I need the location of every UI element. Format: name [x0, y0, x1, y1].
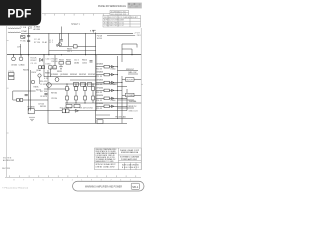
bottom title bar: [73, 181, 145, 191]
revision table: [103, 15, 141, 27]
svg-text:REV C 1976: REV C 1976: [2, 168, 10, 170]
wire: [122, 48, 132, 50]
output terminal stub: [117, 69, 138, 71]
transformer T1 primary winding: [8, 27, 21, 30]
output rail: [65, 102, 141, 104]
wire: [117, 86, 127, 88]
wire: [54, 55, 56, 66]
notes text block: [3, 158, 14, 162]
svg-text:SPKR OUT: SPKR OUT: [126, 69, 135, 71]
connector J1 pin 1: [28, 26, 31, 29]
wire: [58, 33, 60, 46]
svg-text:R10 22 1W: R10 22 1W: [79, 74, 86, 76]
wire: [49, 50, 96, 52]
transistor Q10: [31, 80, 35, 84]
ground: [56, 44, 58, 46]
svg-text:© PhaseLinear Historical: © PhaseLinear Historical: [2, 187, 29, 190]
wire: [107, 34, 135, 36]
rail vertical: [116, 56, 118, 119]
svg-text:PHASE 400 SERIES MANUAL: PHASE 400 SERIES MANUAL: [98, 4, 126, 8]
svg-text:POWER AMPLIFIER: POWER AMPLIFIER: [121, 158, 138, 161]
label row: [60, 107, 93, 109]
svg-text:B+: B+: [90, 31, 93, 33]
transistor Q3: [55, 78, 59, 82]
svg-text:D7 A1: D7 A1: [111, 83, 116, 86]
svg-text:C21 250: C21 250: [51, 98, 57, 100]
PDF badge: [0, 0, 41, 26]
transistor Q11: [38, 74, 41, 77]
capacitor C1: [27, 35, 30, 36]
wire: [12, 91, 14, 100]
svg-text:R33 2K: R33 2K: [66, 59, 72, 61]
svg-text:C11 .1: C11 .1: [67, 51, 72, 53]
bottom ruler numbers: [14, 179, 131, 181]
wire: [20, 44, 22, 55]
svg-text:Q9 MJ450: Q9 MJ450: [96, 103, 103, 105]
resistor R26: [97, 120, 103, 124]
svg-text:A PRODUCTION RELEASE: A PRODUCTION RELEASE: [104, 19, 125, 22]
svg-text:C REVISED PER ECO 47: C REVISED PER ECO 47: [104, 25, 124, 27]
wire: [96, 118, 133, 120]
svg-text:D4 1N4: D4 1N4: [74, 63, 79, 65]
transistor Q1: [58, 43, 61, 46]
svg-text:-75V: -75V: [136, 35, 142, 37]
wire: [48, 33, 50, 54]
label cluster: [23, 69, 49, 108]
speaker terminal box 2: [122, 93, 141, 97]
svg-text:SLO B: SLO B: [97, 38, 103, 40]
svg-text:Q3 2N3055: Q3 2N3055: [60, 74, 68, 76]
capacitor C10: [60, 40, 63, 41]
sheet left border: [7, 26, 9, 177]
resistor R23: [74, 104, 80, 107]
title block: [95, 148, 142, 170]
wire: [68, 33, 70, 46]
wire: [44, 76, 96, 78]
wire: [128, 73, 138, 75]
wire: [70, 79, 96, 81]
dense label row: [50, 74, 95, 76]
emitter resistor R18: [66, 84, 69, 103]
wire: [44, 88, 70, 90]
svg-text:FAN +24V: FAN +24V: [129, 71, 138, 74]
capacitor C2: [27, 40, 30, 41]
output ladder rail: [48, 83, 117, 85]
label J1: [34, 26, 41, 32]
supply rail vertical: [95, 33, 97, 124]
node junction cluster: [92, 30, 96, 32]
svg-text:T1 10A: T1 10A: [20, 26, 27, 29]
resistor R4: [42, 66, 45, 69]
supply rail vertical 2: [96, 55, 98, 111]
svg-text:THERMAL: THERMAL: [129, 100, 137, 103]
connector J1 pin 2: [30, 26, 32, 29]
resistor R25: [66, 109, 69, 113]
label R30: [67, 49, 73, 53]
wire: [117, 107, 134, 109]
wire: [47, 70, 49, 123]
emitter resistor R20: [84, 84, 87, 103]
wire: [49, 69, 51, 77]
svg-text:5: 5: [43, 179, 44, 181]
svg-text:Q11 A9: Q11 A9: [36, 69, 41, 72]
svg-text:Q7 MJ450: Q7 MJ450: [96, 87, 103, 89]
svg-text:2: 2: [72, 179, 73, 181]
svg-text:LINE AT 120VAC 60HZ: LINE AT 120VAC 60HZ: [96, 166, 115, 169]
svg-text:R7 150: R7 150: [34, 42, 40, 44]
wire: [121, 44, 123, 62]
svg-text:C13 22: C13 22: [82, 63, 87, 65]
connector P1: [9, 73, 15, 80]
label right: [129, 110, 139, 112]
speaker terminal box: [122, 78, 141, 82]
resistor R32: [59, 62, 64, 65]
junction node: [67, 84, 94, 104]
svg-text:P1 IN: P1 IN: [9, 71, 15, 73]
revision table rows text: [104, 16, 139, 27]
svg-text:EDMONDS WASH USA: EDMONDS WASH USA: [121, 151, 139, 154]
wire: [13, 99, 48, 101]
svg-text:C16 10: C16 10: [31, 72, 36, 74]
svg-text:SHEET 1: SHEET 1: [71, 23, 81, 26]
svg-text:OUT GND: OUT GND: [126, 95, 134, 97]
svg-text:PDF: PDF: [7, 7, 31, 21]
svg-text:C12 .1: C12 .1: [74, 59, 79, 61]
label under-rows left column: [96, 67, 116, 110]
capacitor C3 electrolytic: [12, 55, 16, 61]
label cluster top mid: [34, 39, 47, 44]
svg-text:3: 3: [62, 179, 63, 181]
ground: [59, 65, 63, 70]
wire: [28, 28, 30, 111]
label row: [45, 58, 58, 74]
rail vertical: [121, 76, 123, 123]
svg-text:8: 8: [14, 179, 15, 181]
diode D2: [40, 58, 43, 61]
wire: [48, 122, 127, 124]
svg-text:Q5 MJ802: Q5 MJ802: [96, 72, 103, 74]
lower bus wire: [35, 110, 127, 112]
rail vertical: [126, 89, 128, 111]
svg-text:R35 5K: R35 5K: [57, 71, 63, 73]
svg-text:4: 4: [52, 179, 53, 181]
label right column: [129, 71, 138, 108]
resistor R30: [73, 45, 77, 48]
svg-text:C8 10PF: C8 10PF: [40, 96, 48, 98]
svg-text:D8 A1: D8 A1: [111, 99, 116, 102]
wire: [21, 32, 133, 34]
resistor R33: [66, 62, 71, 65]
svg-text:SB-1: SB-1: [132, 185, 139, 189]
label mid-low cluster: [51, 93, 57, 100]
resistor R24: [62, 109, 65, 113]
capacitor C6: [25, 94, 28, 95]
resistor R15: [20, 99, 23, 102]
svg-text:B REVISED PER ECO 02: B REVISED PER ECO 02: [104, 22, 124, 24]
diode D3: [75, 109, 78, 112]
svg-text:R18 1K: R18 1K: [34, 87, 40, 89]
emitter resistor R19: [75, 84, 78, 103]
svg-text:C3 8000: C3 8000: [11, 64, 17, 66]
svg-text:ALL RES 1/2W: ALL RES 1/2W: [3, 159, 14, 162]
wire: [43, 55, 45, 77]
svg-text:TP1 0VDC ADJ: TP1 0VDC ADJ: [115, 116, 126, 119]
label K1: [50, 40, 54, 44]
main bus wire: [7, 54, 141, 56]
resistor R5: [49, 66, 52, 69]
svg-text:D6 A1: D6 A1: [111, 67, 116, 70]
svg-text:R17 1K0: R17 1K0: [40, 91, 47, 93]
svg-text:F1 3A: F1 3A: [20, 40, 26, 43]
svg-text:R6 100: R6 100: [52, 61, 58, 63]
resistor R31: [88, 82, 92, 86]
svg-text:R16 47K: R16 47K: [40, 81, 48, 83]
wire: [59, 45, 95, 47]
junction node: [13, 54, 133, 55]
svg-text:OUT LFT: OUT LFT: [126, 80, 134, 82]
revision box: [110, 10, 129, 15]
fuse F1: [21, 36, 25, 39]
svg-text:R34 10: R34 10: [82, 59, 87, 61]
svg-text:Q2 2N3055: Q2 2N3055: [50, 74, 58, 76]
top ruler: [42, 14, 110, 16]
svg-text:WITH NO SIGNAL INPUT: WITH NO SIGNAL INPUT: [96, 163, 116, 166]
svg-text:117VAC: 117VAC: [21, 30, 28, 33]
label column: [31, 58, 38, 65]
output transistor Q6 row: [96, 81, 122, 84]
svg-text:SIZE CODE DWG NO: SIZE CODE DWG NO: [122, 164, 140, 166]
svg-text:C5 .01: C5 .01: [31, 63, 37, 65]
svg-text:MEASURED TO GND: MEASURED TO GND: [96, 160, 115, 163]
wire: [30, 70, 32, 111]
output transistor Q4 row: [96, 65, 118, 68]
capacitor C4 electrolytic: [19, 55, 23, 61]
output device rows: [96, 64, 127, 108]
resistor R6: [53, 66, 56, 69]
label row lower: [59, 59, 87, 64]
svg-text:D5 A1: D5 A1: [46, 62, 51, 65]
svg-text:C7 47PF: C7 47PF: [40, 84, 48, 86]
ground: [29, 117, 35, 121]
wire: [131, 49, 133, 55]
svg-text:REV DESCRIPTION OF CHANGE DATE: REV DESCRIPTION OF CHANGE DATE APP: [104, 16, 139, 19]
emitter resistor R21: [92, 84, 95, 103]
svg-text:J1 MAIN: J1 MAIN: [34, 26, 41, 29]
svg-text:R24 10 R25 10: R24 10 R25 10: [60, 107, 72, 109]
svg-text:F2 4A SB: F2 4A SB: [28, 106, 36, 109]
svg-text:C9 .047 D3 1N4: C9 .047 D3 1N4: [80, 107, 93, 109]
svg-text:R42 1K5: R42 1K5: [40, 106, 46, 108]
capacitor C14: [90, 61, 93, 62]
svg-text:D1 A1: D1 A1: [42, 41, 47, 44]
svg-text:B 400 SCALE 1/1: B 400 SCALE 1/1: [122, 166, 139, 169]
header badge: [128, 3, 142, 9]
wire: [39, 77, 41, 84]
wire: [117, 99, 134, 101]
svg-text:6: 6: [33, 179, 34, 181]
svg-text:AC LINE: AC LINE: [34, 28, 41, 31]
svg-text:Q4 MJ802: Q4 MJ802: [96, 64, 103, 66]
svg-text:R11 22 1W: R11 22 1W: [88, 74, 95, 76]
output transistor Q9 row: [96, 105, 127, 108]
wire: [60, 27, 62, 40]
wire: [13, 90, 36, 92]
output transistor Q8 row: [96, 97, 127, 100]
sheet right border: [141, 28, 143, 170]
svg-text:7: 7: [23, 179, 24, 181]
output transistor Q7 row: [96, 89, 122, 92]
wire: [136, 44, 138, 48]
svg-text:WARMING AMPLIFIER AND POWER: WARMING AMPLIFIER AND POWER: [85, 184, 123, 188]
resistor R3: [39, 66, 42, 69]
label mid rows: [50, 68, 63, 73]
wire: [85, 33, 87, 54]
transistor Q2: [47, 83, 52, 88]
transformer T1 secondary winding: [8, 31, 21, 34]
junction node: [117, 66, 128, 107]
svg-text:Q8 MJ450: Q8 MJ450: [96, 95, 103, 97]
bias network wire: [122, 43, 137, 45]
bottom ruler: [5, 175, 141, 177]
output transistor Q5 row: [96, 73, 118, 76]
resistor R12: [74, 82, 79, 86]
svg-text:C15 50: C15 50: [50, 68, 56, 70]
svg-text:R32 1K: R32 1K: [59, 59, 65, 61]
svg-text:R40 2K2: R40 2K2: [23, 70, 29, 72]
svg-text:Q6 MJ802: Q6 MJ802: [96, 79, 103, 81]
svg-text:GND LUG: GND LUG: [129, 110, 139, 112]
svg-text:R9 220 1W: R9 220 1W: [70, 74, 77, 76]
resistor R14: [17, 99, 20, 102]
label column mid: [34, 81, 48, 98]
capacitor C18: [44, 94, 47, 95]
wire: [96, 114, 110, 116]
resistor R13: [81, 82, 86, 86]
resistor R22: [66, 104, 72, 107]
svg-text:C20 1: C20 1: [46, 58, 51, 60]
speaker fuse F2: [28, 106, 36, 114]
svg-text:C4 8000: C4 8000: [19, 64, 25, 66]
label F4: [97, 34, 103, 39]
svg-text:R37 330: R37 330: [51, 93, 57, 95]
